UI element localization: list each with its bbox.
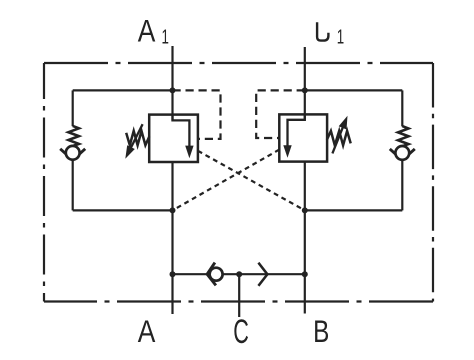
junction node A lower [170,207,176,213]
pilot line dotted cross V1-to-node B [198,151,305,211]
wire bottom horizontal A-to-B [173,273,305,275]
wire left branch lower vertical [72,160,74,211]
port line B1 upper [304,47,306,120]
junction node B lower [302,207,308,213]
check valve CV1 seat [60,149,85,160]
port line A1 upper [171,46,173,120]
svg-text:B: B [313,313,329,349]
flow direction arrow on bottom line [258,263,267,286]
svg-text:A: A [138,313,156,349]
arrowhead of V1 adjustment arrow [125,145,135,159]
adjustment arrow shaft of V1 [131,124,143,148]
relief valve V2 internal flow path [288,114,305,146]
junction node C [236,271,242,277]
enclosure boundary bottom (dash-dot) [44,300,433,302]
port line A lower [171,162,173,314]
port line B lower [304,162,306,314]
svg-text:C: C [233,313,249,351]
wire lower-left horizontal [73,209,173,211]
wire left branch upper vertical [72,90,74,126]
enclosure boundary right (dash-dot) [432,63,434,302]
arrowhead of V1 internal flow path [185,146,193,159]
enclosure boundary top (dash-dot) [44,62,433,64]
label port B1 (stylized glyph) [317,22,328,40]
pilot line dashed right (from node B1 to valve V2) [256,90,305,138]
wire lower-right horizontal [305,209,403,211]
junction node B bottom [302,271,308,277]
wire top-left horizontal [73,89,173,91]
junction node B1-pilot [302,87,308,93]
check valve CV1 ball [66,146,80,160]
svg-text:1: 1 [337,26,344,48]
relief valve V1 body [149,115,198,162]
spring of relief valve V2 [327,131,351,145]
pilot line dotted cross V2-to-node A [173,150,280,211]
port line C [238,274,240,317]
check valve CV2 seat [390,149,415,160]
svg-text:1: 1 [162,27,169,49]
relief valve V2 body [279,114,327,161]
wire top-right horizontal [305,89,403,91]
enclosure boundary left (dash-dot) [43,63,45,302]
pilot line dashed left (from node A1 to valve V1) [173,90,221,138]
svg-text:A: A [138,13,156,49]
adjustment arrow shaft of V2 [332,127,342,153]
wire right branch lower vertical [401,160,403,211]
junction node A1-pilot [170,87,176,93]
check valve CV3 ball [210,268,223,281]
check valve CV3 seat (bottom line) [207,263,216,286]
check valve CV2 ball [395,146,409,160]
junction node A bottom [170,271,176,277]
check valve CV1 spring (left branch) [68,126,79,146]
wire right branch upper vertical [401,90,403,126]
relief valve V1 internal flow path [173,115,190,147]
arrowhead of V2 adjustment arrow [339,116,348,130]
spring of relief valve V1 [126,131,149,145]
arrowhead of V2 internal flow path [283,145,291,158]
check valve CV2 spring (right branch) [398,126,409,146]
